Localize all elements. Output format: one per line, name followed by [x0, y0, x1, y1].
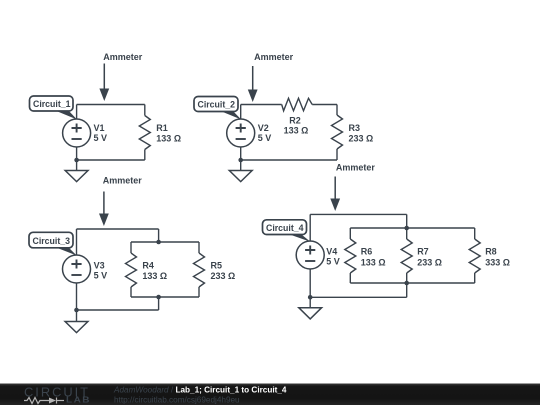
svg-text:333 Ω: 333 Ω — [485, 257, 510, 267]
wire: top rail circuit 1 — [77, 104, 145, 106]
svg-text:R7: R7 — [417, 247, 429, 257]
wire: V1 top stub — [76, 105, 78, 120]
svg-text:Ammeter: Ammeter — [103, 176, 143, 186]
wire: top rail left circuit 2 — [241, 104, 282, 106]
svg-text:Ammeter: Ammeter — [103, 52, 143, 62]
ammeter arrow (circuit 4) — [330, 177, 340, 212]
wire: V2 bottom stub — [240, 147, 242, 160]
voltage source V4 — [296, 241, 324, 269]
svg-text:133 Ω: 133 Ω — [284, 125, 309, 135]
svg-text:Circuit_4: Circuit_4 — [266, 223, 304, 233]
svg-text:R1: R1 — [156, 123, 168, 133]
wire: V1 bottom stub — [76, 147, 78, 160]
wire: parallel top rail circuit 3 — [131, 241, 199, 243]
node: junction top of parallel pair — [156, 240, 161, 245]
svg-text:5 V: 5 V — [94, 271, 108, 281]
node: junction at V1 bottom — [74, 158, 79, 163]
wire: V3 top stub — [76, 229, 78, 255]
svg-text:R6: R6 — [361, 247, 373, 257]
node: junction at V2 bottom — [238, 158, 243, 163]
node: junction at V3 bottom — [74, 308, 79, 313]
svg-text:LAB: LAB — [66, 396, 91, 405]
wire: top rail circuit 4 — [310, 213, 407, 215]
wire: bottom rail circuit 2 — [241, 159, 337, 161]
svg-text:5 V: 5 V — [94, 133, 108, 143]
svg-text:V4: V4 — [326, 246, 337, 256]
resistor R4 — [126, 242, 137, 297]
callout Circuit_2 — [194, 97, 241, 120]
svg-text:Ammeter: Ammeter — [336, 163, 376, 173]
node: junction bottom of parallel set — [404, 281, 409, 286]
voltage source V1 — [63, 119, 91, 147]
logo waveform icon — [24, 398, 64, 404]
node: junction bottom of parallel pair — [156, 295, 161, 300]
wire: V4 top stub — [309, 214, 311, 241]
callout Circuit_4 — [263, 220, 311, 242]
callout Circuit_3 — [29, 232, 77, 255]
node: junction top of parallel set — [404, 226, 409, 231]
svg-text:233 Ω: 233 Ω — [417, 257, 442, 267]
wire: stub from top rail to parallel top rail — [158, 229, 160, 242]
svg-text:233 Ω: 233 Ω — [349, 134, 374, 144]
voltage source V2 — [227, 119, 255, 147]
svg-text:AdamWoodard / Lab_1; Circuit_1: AdamWoodard / Lab_1; Circuit_1 to Circui… — [113, 386, 287, 395]
wire: stub from parallel bottom rail to bottom rail — [406, 283, 408, 297]
resistor R6 — [345, 228, 356, 283]
wire: bottom rail circuit 3 — [77, 309, 159, 311]
resistor R2 (horizontal) — [282, 98, 313, 111]
wire: bottom rail circuit 1 — [77, 159, 145, 161]
svg-text:V1: V1 — [94, 123, 105, 133]
wire: V2 top stub — [240, 105, 242, 120]
svg-text:R2: R2 — [289, 115, 301, 125]
voltage source V3 — [63, 255, 91, 283]
wire: stub from parallel bottom rail to bottom rail — [158, 297, 160, 310]
svg-text:Circuit_1: Circuit_1 — [33, 99, 71, 109]
ground (circuit 1) — [65, 160, 88, 182]
ammeter arrow (circuit 1) — [99, 64, 109, 102]
svg-text:Circuit_3: Circuit_3 — [33, 236, 71, 246]
svg-text:R5: R5 — [211, 260, 223, 270]
wire: parallel top rail circuit 4 — [350, 227, 474, 229]
svg-text:5 V: 5 V — [258, 133, 272, 143]
wire: V4 bottom stub — [309, 269, 311, 297]
resistor R7 — [401, 228, 412, 283]
svg-text:R8: R8 — [485, 247, 497, 257]
svg-text:R3: R3 — [349, 123, 361, 133]
svg-text:V2: V2 — [258, 123, 269, 133]
svg-text:R4: R4 — [142, 260, 154, 270]
resistor R8 — [469, 228, 480, 283]
svg-text:233 Ω: 233 Ω — [211, 271, 236, 281]
ammeter arrow (circuit 3) — [99, 192, 109, 227]
ammeter arrow (circuit 2) — [248, 66, 258, 102]
ground (circuit 4) — [299, 297, 322, 319]
wire: bottom rail circuit 4 — [310, 296, 407, 298]
resistor R3 — [332, 105, 343, 161]
wire: parallel bottom rail circuit 4 — [350, 282, 474, 284]
ground (circuit 3) — [65, 310, 88, 333]
wire: V3 bottom stub — [76, 283, 78, 310]
callout Circuit_1 — [30, 96, 78, 120]
resistor R1 — [139, 105, 150, 161]
svg-text:133 Ω: 133 Ω — [156, 134, 181, 144]
node: junction at V4 bottom — [308, 295, 313, 300]
svg-text:5 V: 5 V — [326, 257, 340, 267]
wire: parallel bottom rail circuit 3 — [131, 296, 199, 298]
svg-text:Circuit_2: Circuit_2 — [198, 100, 236, 110]
resistor R5 — [194, 242, 205, 297]
svg-text:133 Ω: 133 Ω — [361, 257, 386, 267]
svg-text:Ammeter: Ammeter — [254, 52, 294, 62]
wire: top rail circuit 3 — [77, 228, 159, 230]
svg-text:V3: V3 — [94, 261, 105, 271]
wire: stub from top rail to parallel top rail — [406, 214, 408, 228]
wire: top rail right circuit 2 — [312, 104, 337, 106]
svg-text:133 Ω: 133 Ω — [142, 271, 167, 281]
svg-text:http://circuitlab.com/csj69edj: http://circuitlab.com/csj69edj4h9eu — [114, 396, 240, 405]
ground (circuit 2) — [229, 160, 252, 182]
